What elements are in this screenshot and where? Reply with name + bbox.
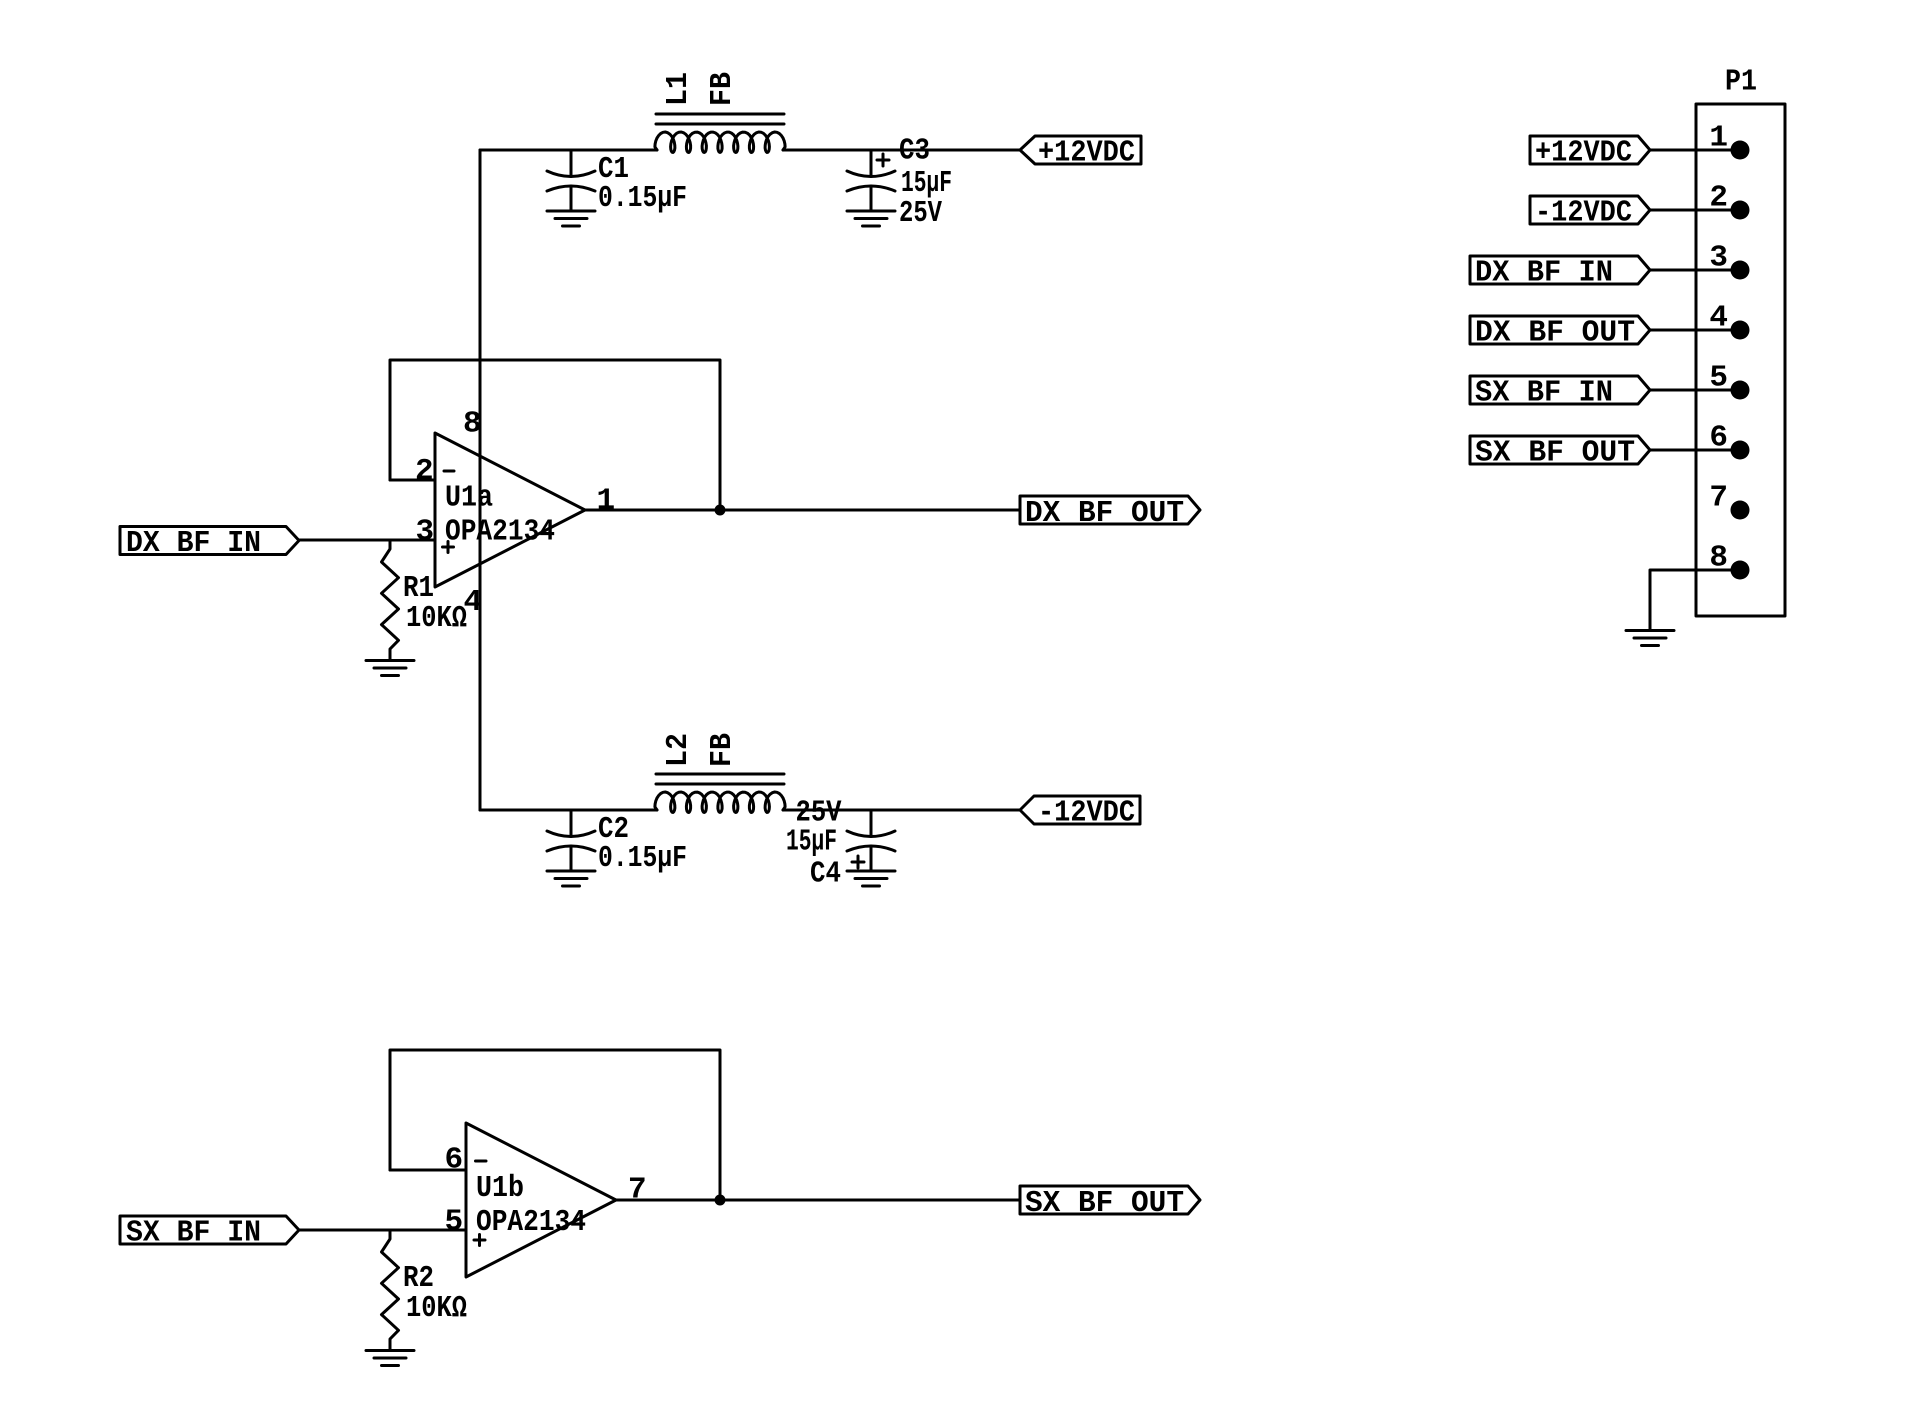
- inductor L1 ferrite bars: [656, 113, 784, 116]
- svg-text:7: 7: [628, 1173, 647, 1208]
- svg-text:+12VDC: +12VDC: [1535, 136, 1632, 171]
- wire: U1a feedback loop pin2 to output: [390, 360, 720, 510]
- ground under C1: [547, 210, 595, 213]
- wire: DX_BF_OUT flag to P1 pin 4: [1650, 329, 1740, 332]
- svg-text:DX_BF_OUT: DX_BF_OUT: [1475, 316, 1635, 351]
- svg-text:C3: C3: [899, 134, 930, 169]
- inductor L2 ferrite bars: [656, 773, 784, 776]
- plus mark U1b: [474, 1239, 485, 1242]
- wire: U1a pin 2 stub: [390, 479, 435, 482]
- wire: P1 pin 8 to ground: [1650, 570, 1740, 631]
- plus mark U1a: [443, 546, 454, 549]
- junction dot at U1b output/feedback: [715, 1195, 726, 1206]
- svg-text:-12VDC: -12VDC: [1535, 196, 1632, 231]
- svg-text:DX_BF_OUT: DX_BF_OUT: [1025, 496, 1184, 531]
- svg-text:10KΩ: 10KΩ: [406, 1291, 467, 1326]
- svg-text:3: 3: [1709, 241, 1728, 276]
- wire: DX_BF_IN to U1a pin 3: [299, 539, 435, 542]
- P1 pin 1 dot: [1731, 141, 1750, 160]
- wire: U1b pin 6 stub: [390, 1169, 466, 1172]
- P1 pin 8 dot: [1731, 561, 1750, 580]
- connector P1 body: [1696, 104, 1785, 616]
- ground under R1: [366, 659, 414, 662]
- svg-text:0.15µF: 0.15µF: [598, 841, 687, 876]
- signal flag DX_BF_OUT (P1 pin 4): [1470, 316, 1650, 344]
- svg-text:OPA2134: OPA2134: [445, 515, 555, 550]
- svg-text:SX_BF_IN: SX_BF_IN: [1475, 376, 1613, 411]
- capacitor C3 (polarized): [870, 150, 873, 177]
- wire: -12V bottom rail right segment: [783, 809, 1020, 812]
- svg-text:FB: FB: [705, 72, 740, 106]
- svg-text:U1a: U1a: [445, 481, 493, 516]
- svg-text:3: 3: [416, 515, 435, 550]
- ground under C2: [547, 870, 595, 873]
- svg-text:-12VDC: -12VDC: [1038, 796, 1135, 831]
- wire: DX_BF_IN flag to P1 pin 3: [1650, 269, 1740, 272]
- wire: +12V top rail left segment: [480, 149, 657, 152]
- svg-text:15µF: 15µF: [786, 825, 837, 860]
- svg-text:DX_BF_IN: DX_BF_IN: [1475, 256, 1613, 291]
- svg-text:U1b: U1b: [476, 1171, 524, 1206]
- wire: U1b output to SX_BF_OUT: [616, 1199, 1020, 1202]
- svg-text:SX_BF_OUT: SX_BF_OUT: [1025, 1186, 1184, 1221]
- ground under R2: [366, 1349, 414, 1352]
- svg-text:4: 4: [1709, 301, 1728, 336]
- wire: SX_BF_OUT flag to P1 pin 6: [1650, 449, 1740, 452]
- svg-text:5: 5: [1709, 361, 1728, 396]
- svg-text:2: 2: [415, 454, 434, 489]
- resistor R2: [382, 1230, 399, 1351]
- ground under C4: [847, 870, 895, 873]
- output flag DX_BF_OUT: [1020, 496, 1200, 524]
- power flag -12VDC (rail): [1020, 796, 1140, 824]
- power flag +12VDC (rail): [1020, 136, 1141, 164]
- plus mark C4: [852, 861, 864, 864]
- input flag DX_BF_IN: [120, 527, 299, 555]
- output flag SX_BF_OUT: [1020, 1186, 1200, 1214]
- signal flag -12VDC (P1 pin 2): [1530, 196, 1650, 224]
- P1 pin 4 dot: [1731, 321, 1750, 340]
- svg-text:25V: 25V: [899, 196, 942, 231]
- svg-text:P1: P1: [1725, 65, 1757, 100]
- svg-text:SX_BF_OUT: SX_BF_OUT: [1475, 436, 1635, 471]
- wire: SX_BF_IN flag to P1 pin 5: [1650, 389, 1740, 392]
- signal flag SX_BF_OUT (P1 pin 6): [1470, 436, 1650, 464]
- svg-text:OPA2134: OPA2134: [476, 1205, 586, 1240]
- svg-text:8: 8: [463, 407, 482, 442]
- svg-text:L1: L1: [661, 72, 696, 106]
- plus mark C3: [877, 159, 889, 162]
- svg-text:7: 7: [1709, 481, 1728, 516]
- P1 pin 6 dot: [1731, 441, 1750, 460]
- op-amp U1b triangle: [466, 1123, 616, 1277]
- svg-text:2: 2: [1709, 181, 1728, 216]
- wire: -12VDC flag to P1 pin 2: [1650, 209, 1740, 212]
- signal flag +12VDC (P1 pin 1): [1530, 136, 1650, 164]
- svg-text:+12VDC: +12VDC: [1038, 136, 1135, 171]
- inductor L2 (ferrite bead) coil: [655, 792, 785, 813]
- wire: U1a output to DX_BF_OUT: [585, 509, 1020, 512]
- ground at P1 pin 8: [1626, 629, 1674, 632]
- svg-text:0.15µF: 0.15µF: [598, 181, 687, 216]
- wire: +12V top rail right segment: [783, 149, 1020, 152]
- svg-text:1: 1: [1709, 121, 1728, 156]
- signal flag SX_BF_IN (P1 pin 5): [1470, 376, 1650, 404]
- P1 pin 7 dot: [1731, 501, 1750, 520]
- svg-text:SX_BF_IN: SX_BF_IN: [126, 1216, 261, 1251]
- wire: +12VDC flag to P1 pin 1: [1650, 149, 1740, 152]
- inductor L1 (ferrite bead) coil: [655, 132, 785, 153]
- svg-text:10KΩ: 10KΩ: [406, 601, 467, 636]
- minus mark U1b: [476, 1160, 487, 1163]
- ground under C3: [847, 210, 895, 213]
- wire: +12V vertical supply drop from top rail to -12V rail (pins 8/4 of U1): [479, 150, 482, 810]
- capacitor C2: [570, 810, 573, 837]
- svg-text:5: 5: [445, 1205, 464, 1240]
- wire: -12V bottom rail left segment: [480, 809, 657, 812]
- svg-text:DX_BF_IN: DX_BF_IN: [126, 526, 261, 561]
- wire: SX_BF_IN to U1b pin 5: [299, 1229, 466, 1232]
- svg-text:6: 6: [445, 1143, 464, 1178]
- svg-text:6: 6: [1709, 421, 1728, 456]
- svg-text:1: 1: [597, 484, 616, 519]
- capacitor C4 (polarized): [870, 810, 873, 837]
- svg-text:C4: C4: [810, 857, 841, 892]
- junction dot at U1a output/feedback: [715, 505, 726, 516]
- minus mark U1a: [444, 470, 454, 473]
- svg-text:L2: L2: [661, 733, 696, 767]
- capacitor C1: [570, 150, 573, 177]
- svg-text:FB: FB: [705, 733, 740, 767]
- P1 pin 3 dot: [1731, 261, 1750, 280]
- wire: U1b feedback loop pin6 to output: [390, 1050, 720, 1200]
- signal flag DX_BF_IN (P1 pin 3): [1470, 256, 1650, 284]
- input flag SX_BF_IN: [120, 1216, 299, 1244]
- P1 pin 5 dot: [1731, 381, 1750, 400]
- op-amp U1a triangle: [435, 433, 585, 587]
- resistor R1: [382, 540, 399, 661]
- P1 pin 2 dot: [1731, 201, 1750, 220]
